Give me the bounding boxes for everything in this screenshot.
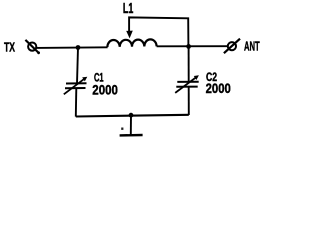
wire bottom bus — [76, 115, 189, 117]
wire TX to coil — [36, 46, 107, 49]
junction node A (TX/C1) — [76, 45, 81, 50]
junction node G (ground tap) — [129, 113, 134, 118]
stray ink dot — [121, 128, 123, 130]
arrow of variable capacitor C1 — [64, 79, 85, 95]
wire L1 tap (up, over, down) — [129, 17, 188, 45]
svg-text:ANT: ANT — [244, 39, 260, 54]
wire C1 to bottom — [75, 88, 78, 116]
arrowhead L1 tap onto coil — [126, 31, 133, 39]
arrow of variable capacitor C2 — [175, 77, 196, 93]
svg-text:2000: 2000 — [92, 82, 118, 98]
svg-text:TX: TX — [4, 40, 15, 55]
capacitor C2 plates — [177, 81, 198, 83]
connector J-ANT (circle with slash) — [224, 39, 240, 54]
inductor L1 coil — [107, 39, 156, 47]
wire down to ground — [130, 115, 132, 135]
wire node B down to C2 — [188, 46, 190, 82]
wire node A down to C1 — [77, 48, 78, 84]
connector J-TX (circle with slash) — [25, 40, 40, 54]
wire coil to ANT — [157, 45, 228, 47]
ground symbol — [120, 134, 143, 137]
svg-text:L1: L1 — [123, 0, 133, 17]
svg-text:2000: 2000 — [206, 80, 231, 96]
junction node B (ANT/C2/tap) — [186, 44, 191, 49]
wire C2 to bottom — [188, 87, 190, 115]
capacitor C1 plates — [66, 82, 87, 84]
